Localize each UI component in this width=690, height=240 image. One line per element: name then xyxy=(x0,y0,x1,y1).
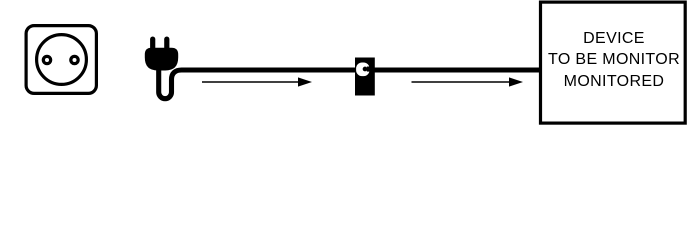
svg-text:TO BE MONITOR: TO BE MONITOR xyxy=(548,51,680,68)
wire power cord from plug to device xyxy=(159,66,541,99)
current sensor C on cord xyxy=(355,58,375,96)
arrow A2 current flow xyxy=(412,77,524,86)
mains plug xyxy=(145,37,178,71)
svg-text:DEVICE: DEVICE xyxy=(583,30,645,47)
sensor clamp C mark xyxy=(356,63,369,77)
arrow A1 current flow xyxy=(202,77,312,86)
plug pin right xyxy=(164,37,169,51)
svg-text:MONITORED: MONITORED xyxy=(564,73,665,90)
socket pin hole right xyxy=(71,56,78,63)
wall outlet socket xyxy=(26,26,96,94)
sensor body xyxy=(355,58,375,96)
device box xyxy=(541,2,686,123)
plug pin left xyxy=(150,37,155,51)
socket face circle xyxy=(37,35,87,85)
plug body xyxy=(145,48,178,71)
socket pin hole left xyxy=(43,56,50,63)
socket plate xyxy=(26,26,96,94)
device label text xyxy=(548,30,680,90)
